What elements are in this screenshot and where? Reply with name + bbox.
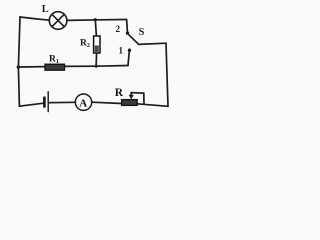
wire bottom-left to battery	[19, 103, 43, 106]
wire slider step	[131, 93, 144, 105]
resistor R1	[45, 64, 65, 70]
switch S lever	[128, 34, 139, 44]
junction node mid	[95, 65, 98, 68]
switch contact 2	[126, 31, 129, 34]
wire top-left to lamp	[20, 17, 49, 20]
wire R0 bottom lead	[95, 53, 98, 66]
svg-text:A: A	[79, 97, 87, 109]
wire R0 top lead	[95, 20, 96, 36]
junction node top	[94, 18, 97, 21]
wire bottom-right	[137, 104, 168, 107]
wire contact-1 stub	[128, 51, 129, 66]
wire top-right corner down to contact 2	[126, 20, 129, 32]
rheostat arrow head	[129, 95, 134, 100]
wire R1 to corner below contact 1	[65, 65, 129, 68]
rheostat R	[122, 100, 138, 106]
wire ammeter to rheostat	[92, 102, 122, 103]
lamp L	[49, 12, 67, 30]
rheostat slider arrow shaft	[130, 93, 132, 97]
wire right vertical	[166, 43, 168, 106]
junction node left	[17, 65, 21, 69]
svg-text:S: S	[139, 27, 145, 38]
wire switch pivot to right	[139, 43, 166, 44]
wire lamp to top-right corner	[67, 19, 127, 22]
wire middle horizontal (to R1)	[18, 66, 45, 68]
svg-text:L: L	[42, 4, 49, 15]
svg-text:2: 2	[116, 24, 121, 34]
svg-text:R: R	[115, 87, 124, 99]
ammeter A	[75, 94, 91, 110]
resistor R0	[94, 36, 100, 53]
wire battery to ammeter	[49, 101, 76, 103]
svg-text:1: 1	[119, 46, 124, 56]
battery cell	[44, 91, 48, 112]
wire left vertical	[18, 17, 20, 106]
switch contact 1	[128, 49, 131, 52]
